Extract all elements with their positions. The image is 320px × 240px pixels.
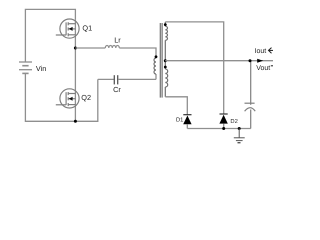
wire secondary bottom to D1 branch (165, 97, 187, 115)
svg-text:Lr: Lr (114, 36, 121, 45)
secondary bottom polarity dot (164, 66, 167, 69)
svg-text:Cr: Cr (113, 85, 121, 94)
node A junction dot (74, 47, 77, 50)
diode D1 (183, 115, 191, 129)
junction dot D2 anode (222, 127, 225, 130)
junction dot Q2 source on bottom rail (74, 120, 77, 123)
transformer core (160, 23, 162, 98)
battery Vin (19, 62, 32, 73)
junction dot cap branch (249, 59, 252, 62)
wire node A to primary top with inductor Lr (75, 46, 156, 57)
transistor Q1 (56, 19, 79, 38)
junction dot ground (238, 127, 241, 130)
wire top rail (25, 9, 75, 61)
svg-text:Iout: Iout (255, 48, 267, 55)
svg-text:Q1: Q1 (82, 23, 92, 32)
center tap junction dot (164, 59, 167, 62)
wire battery bottom lead + bottom-left rail (25, 74, 97, 121)
svg-text:Vin: Vin (36, 64, 46, 73)
inductor Lr (105, 46, 119, 49)
ground (234, 129, 245, 143)
transistor Q2 (56, 89, 79, 108)
wire center tap output (165, 60, 273, 62)
capacitor output (245, 61, 256, 129)
svg-text:Vout: Vout (256, 65, 270, 72)
wire bottom-right rail (187, 128, 250, 130)
current arrow on output wire (257, 59, 263, 63)
transformer primary winding (154, 58, 156, 74)
diode D2 (219, 114, 227, 129)
primary polarity dot (155, 55, 158, 58)
svg-text:D1: D1 (176, 117, 183, 123)
wire half-bridge bus (Q1 drain to Q2 source) (74, 19, 76, 121)
svg-text:Q2: Q2 (81, 93, 91, 102)
capacitor Cr (98, 74, 156, 84)
wire secondary top to D2 branch (165, 22, 223, 114)
transformer secondary bottom winding (165, 61, 167, 97)
transformer secondary top winding (165, 22, 167, 61)
secondary top polarity dot (164, 23, 167, 26)
svg-text:D2: D2 (230, 118, 237, 125)
